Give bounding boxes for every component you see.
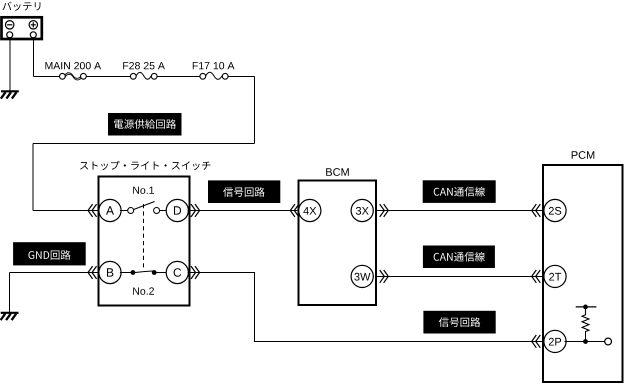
terminal C <box>166 261 188 283</box>
switch No.2 label <box>133 287 154 294</box>
fusible link MAIN 200 A <box>45 62 101 80</box>
wire B to ground <box>10 273 100 313</box>
switch No.2 contact left <box>131 270 136 275</box>
fuse F28 25 A <box>123 62 165 79</box>
wire 3W to 2T CAN <box>376 276 544 278</box>
terminal 2T <box>544 265 566 287</box>
terminal B <box>99 261 121 283</box>
label 信号回路 (signal circuit) <box>208 180 280 203</box>
terminal 2S <box>544 199 566 221</box>
resistor (pull-up) <box>582 307 589 342</box>
label 電源供給回路 <box>108 113 182 136</box>
wire 3X to 2S CAN <box>376 210 544 212</box>
PCM title <box>572 151 595 159</box>
wire battery positive down <box>33 37 35 76</box>
terminal A <box>99 199 121 221</box>
switch No.1 blade (open) <box>134 202 155 210</box>
stop light switch box <box>99 177 190 306</box>
ground (GND回路) <box>1 313 19 320</box>
ground (battery) <box>1 91 19 98</box>
BCM title <box>326 168 349 176</box>
switch No.2 blade (closed) <box>133 271 154 273</box>
wire power feed return <box>33 143 255 145</box>
open terminal circle <box>605 338 612 345</box>
wire power feed right vertical <box>254 77 256 144</box>
switch No.2 contact right <box>152 270 157 275</box>
connector chevrons at A <box>88 204 97 217</box>
label CAN通信線 (lower) <box>423 246 495 269</box>
connector chevrons after 3W <box>380 270 389 283</box>
label 信号回路 (bottom) <box>423 311 495 334</box>
connector chevrons at 4X <box>290 204 299 217</box>
connector chevrons at 2S <box>532 204 541 217</box>
wire contact to D <box>160 210 167 212</box>
connector chevrons at 2T <box>532 270 541 283</box>
mechanical link dashed <box>143 204 145 269</box>
internal supply dot <box>583 305 588 310</box>
junction dot at resistor bottom <box>583 339 588 344</box>
terminal 3X <box>351 199 373 221</box>
internal supply bar <box>576 306 597 308</box>
connector chevrons at B <box>88 266 97 279</box>
wire contact to C <box>154 272 166 274</box>
label CAN通信線 (upper) <box>423 180 496 203</box>
wire C to PCM 2P <box>188 273 544 342</box>
wire D to BCM 4X <box>188 210 299 212</box>
BCM box <box>299 181 377 306</box>
battery B+ <box>2 17 42 39</box>
wire battery negative to ground <box>9 37 11 91</box>
switch No.1 label <box>133 187 154 194</box>
connector chevrons after D <box>191 204 200 217</box>
connector chevrons after 3X <box>380 204 389 217</box>
wire fuse row <box>34 76 255 78</box>
wire B to contact <box>120 272 133 274</box>
wire power feed left vertical <box>32 144 34 211</box>
connector chevrons after C <box>191 266 200 279</box>
switch No.1 contact right <box>154 208 160 214</box>
terminal D <box>166 199 188 221</box>
label GND回路 <box>13 242 86 265</box>
terminal 3W <box>351 265 373 287</box>
battery バッテリ label <box>2 2 40 11</box>
stop light switch title ストップ・ライト・スイッチ <box>80 161 210 170</box>
fuse F17 10 A <box>193 62 235 79</box>
connector chevrons at 2P <box>532 335 541 348</box>
terminal 4X <box>299 199 321 221</box>
wire to terminal A <box>33 210 99 212</box>
wire A to contact <box>120 210 128 212</box>
switch No.1 contact left <box>128 208 134 214</box>
PCM box <box>543 165 623 382</box>
wire 2P internal <box>565 341 605 343</box>
terminal 2P <box>544 330 566 352</box>
